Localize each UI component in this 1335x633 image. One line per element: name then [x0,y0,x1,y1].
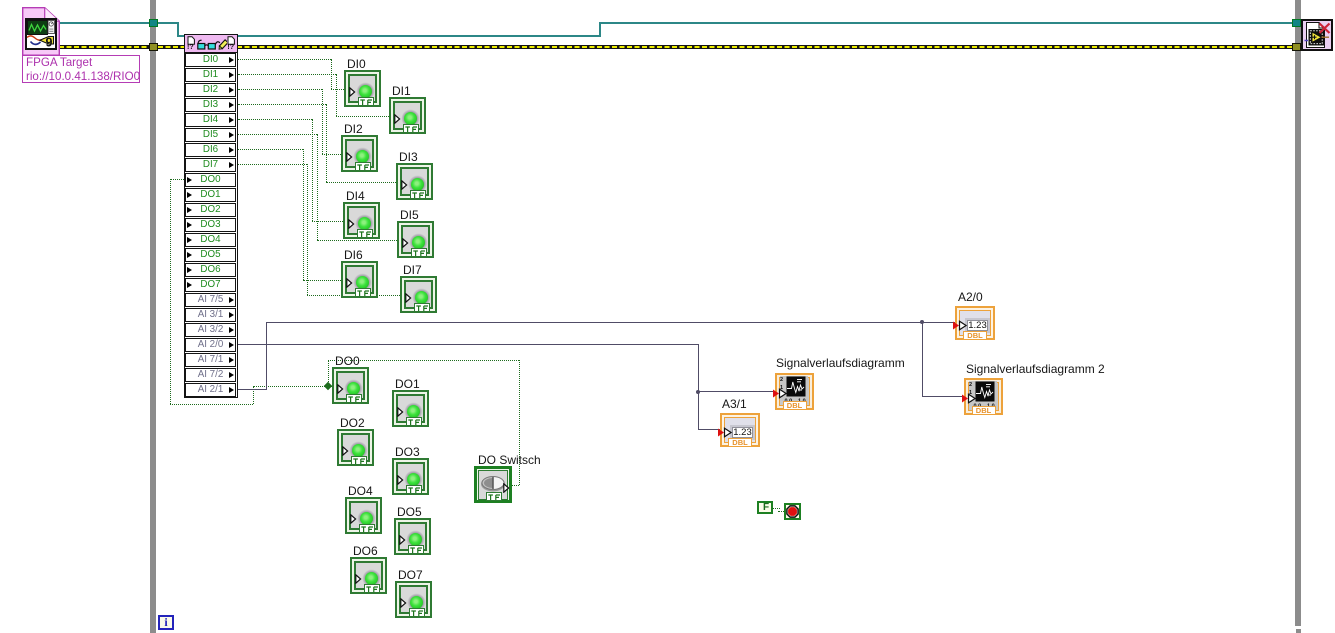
node header [185,35,237,53]
indicator DI2 [341,135,378,172]
wire DO bus diamond to DO0 LED [331,386,335,387]
indicator DO4 [345,497,382,534]
FPGA Target icon [25,18,57,50]
wire FPGA-ref teal from FPGA Target to left tunnel [59,22,150,24]
wire teal long top run to right tunnel [601,22,1292,24]
numeric indicator A2/0 [955,306,995,340]
row AI 3/1 [185,308,236,322]
control DO Switsch [474,466,512,503]
tunnel FPGA-ref left (teal) [149,19,158,27]
indicator DO0 [332,367,369,404]
junction dot A2/0 [920,320,924,324]
indicator DO2 [337,429,374,466]
indicator DO5 [394,518,431,555]
header !? left [187,44,194,52]
row DO5 [185,248,236,262]
wire DI2 boolean dotted [238,89,322,90]
indicator DO1 [392,390,429,427]
stop button [784,503,801,520]
wire DI3 boolean dotted [238,104,326,105]
boolean constant F [757,501,773,514]
while loop right border bottom stub [1296,629,1301,633]
wire DI1 boolean dotted [238,74,336,75]
indicator DI7 [400,276,437,313]
header page icon left [187,36,195,45]
chart terminal Signalverlaufsdiagramm 2 [964,378,1003,415]
wire AI2/1 vertical rise [266,322,267,390]
row DI0 [185,53,236,67]
wire DI7 boolean dotted [238,164,307,165]
wire AI2/0 vertical drop [698,344,699,392]
junction diamond DO0 [324,382,332,390]
label Signalverlaufsdiagramm 2 [966,363,1105,376]
row DI5 [185,128,236,142]
wire DI5 boolean dotted [238,134,317,135]
wire error tunnel to node [158,45,185,49]
wire DI4 boolean dotted [238,119,312,120]
wire DO bus diamond back to node DO0 [253,386,325,387]
wire DO bus from switch to corner [510,485,519,486]
row AI 2/0 [185,338,236,352]
wire into A3/1 [698,429,720,430]
FPGA Target node page shape [22,7,60,56]
row DO1 [185,188,236,202]
wire DI0 boolean dotted [238,59,331,60]
while loop right border [1295,0,1301,626]
wire to Signalverlaufsdiagramm [698,391,775,392]
close FPGA node [1301,19,1333,51]
tunnel error left (olive) [149,43,158,51]
wire teal into node [177,35,185,37]
FPGA Target label box [22,55,140,83]
row AI 7/1 [185,353,236,367]
indicator DO3 [392,458,429,495]
wire into Signalverlaufsdiagramm 2 [922,396,964,397]
chart terminal Signalverlaufsdiagramm [775,373,814,410]
row AI 7/2 [185,368,236,382]
indicator DI0 [344,70,381,107]
wire down to chart2 [922,322,923,396]
wire error cluster left segment [59,45,150,49]
row DO3 [185,218,236,232]
label Signalverlaufsdiagramm [776,357,905,370]
wire teal node right to step [237,35,601,37]
row DI6 [185,143,236,157]
iteration terminal i [158,615,174,630]
row AI 7/5 [185,293,236,307]
header !? right [227,44,234,52]
row DI2 [185,83,236,97]
row DI7 [185,158,236,172]
wire AI2/1 stub [238,389,266,390]
wire teal tunnel to corner [158,22,179,24]
header page icon right [227,36,235,45]
junction dot chart1 [696,390,700,394]
indicator DI4 [343,202,380,239]
row DO4 [185,233,236,247]
wire AI2/1 long run to A2/0 [266,322,955,323]
numeric indicator A3/1 [720,413,760,447]
tunnel FPGA-ref right (teal) [1292,19,1301,27]
row AI 3/2 [185,323,236,337]
wire AI2/0 horizontal run [238,344,698,345]
svg-text:2: 2 [780,377,783,383]
wire error node to right tunnel [237,45,1292,49]
wire teal vertical drop [177,22,179,37]
indicator DI3 [396,163,433,200]
indicator DO6 [350,557,387,594]
label A3/1 [722,398,747,411]
label A2/0 [958,291,983,304]
svg-text:9: 9 [46,36,53,49]
svg-text:2: 2 [969,382,972,388]
Read/Write Control node [184,34,238,398]
wire F to stop dotted [773,508,780,509]
row DI4 [185,113,236,127]
header glasses+pencil [197,37,227,52]
row DI3 [185,98,236,112]
wire DI6 boolean dotted [238,149,303,150]
row DO2 [185,203,236,217]
row DO6 [185,263,236,277]
indicator DO7 [395,581,432,618]
indicator DI1 [389,97,426,134]
wire down to A3/1 [698,392,699,429]
row DI1 [185,68,236,82]
while loop left border [150,0,156,633]
row AI 2/1 [185,383,236,397]
row DO7 [185,278,236,292]
wire teal step vertical [599,22,601,37]
tunnel error right (olive) [1292,43,1301,51]
row DO0 [185,173,236,187]
indicator DI6 [341,261,378,298]
indicator DI5 [397,221,434,258]
